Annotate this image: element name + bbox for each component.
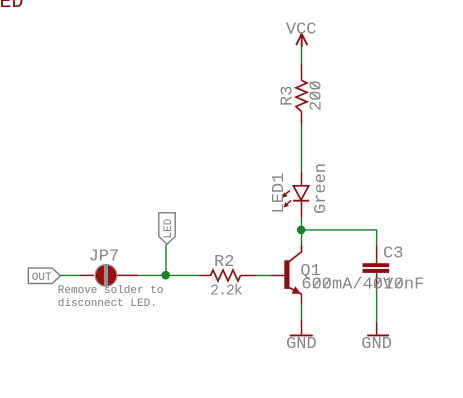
svg-text:Green: Green (312, 163, 331, 214)
net flag LED (159, 213, 175, 244)
junction node at LED tap (161, 271, 170, 280)
ground left (286, 320, 317, 354)
svg-text:R2: R2 (214, 253, 234, 272)
supply symbol VCC (286, 21, 317, 48)
LED LED1 (270, 163, 331, 217)
base bar (284, 260, 289, 289)
svg-text:LED: LED (0, 0, 24, 14)
resistor R3 (279, 80, 327, 124)
emitter diagonal with arrow (289, 288, 301, 295)
junction node (297, 226, 306, 235)
svg-text:GND: GND (286, 335, 317, 354)
svg-text:C3: C3 (383, 245, 403, 264)
svg-text:LED: LED (163, 218, 175, 238)
svg-text:R3: R3 (279, 86, 298, 106)
svg-text:JP7: JP7 (89, 248, 120, 267)
svg-text:LED1: LED1 (270, 173, 289, 214)
wire JP7 to R2 (138, 274, 200, 276)
wire R3 to LED1 (301, 125, 303, 173)
svg-text:GND: GND (361, 335, 392, 354)
svg-text:2.2k: 2.2k (210, 284, 243, 300)
wire junction up to LED flag (165, 244, 167, 275)
collector diagonal (289, 245, 301, 261)
wire junction to C3 (horizontal + corner down) (301, 230, 376, 246)
emitter pin (301, 294, 303, 304)
resistor R3 pin top (301, 64, 303, 81)
wire VCC to R3 (301, 47, 303, 65)
transistor Q1 (271, 245, 394, 303)
svg-text:Remove solder to: Remove solder to (58, 285, 164, 297)
svg-text:disconnect LED.: disconnect LED. (58, 298, 157, 310)
capacitor C3 (363, 245, 425, 295)
resistor R2 (200, 253, 256, 300)
emission arrow 2 (283, 200, 291, 207)
wire R2 to Q1 base (256, 275, 272, 277)
net label OUT flag (28, 268, 60, 284)
emission arrow 1 (282, 191, 290, 198)
wire C3 to GND (376, 289, 378, 322)
wire LED1 to junction (301, 217, 303, 230)
note text (58, 285, 164, 310)
wire junction down to Q1 collector (301, 230, 303, 246)
wire OUT to JP7 (60, 274, 81, 276)
svg-text:OUT: OUT (32, 272, 52, 284)
base pin (271, 275, 284, 277)
jumper JP7 (81, 248, 139, 287)
svg-text:200: 200 (308, 80, 327, 111)
wire Q1 emitter to GND (301, 304, 303, 321)
ground right (361, 322, 392, 354)
